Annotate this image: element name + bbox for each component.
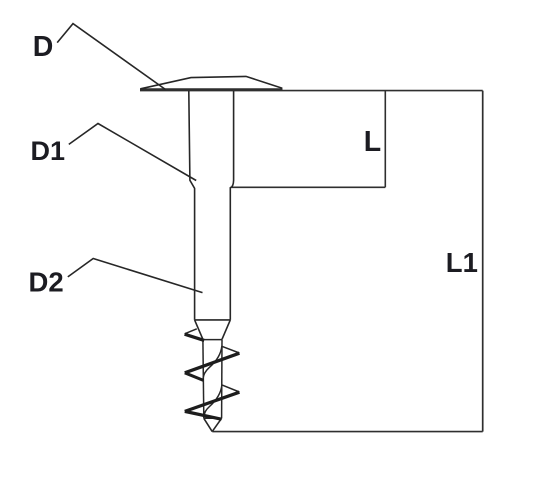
shaft left edge with shoulder jog [189, 91, 195, 320]
svg-text:D2: D2 [29, 267, 64, 298]
thread crest 1 left upper flank [185, 329, 197, 334]
svg-text:L1: L1 [446, 247, 478, 278]
tip top horizontal line [204, 417, 222, 419]
thread crest 1 right upper flank [222, 346, 239, 353]
thread thick long line 1 [185, 353, 240, 373]
leader line for D2 [68, 259, 203, 293]
dimension line L1 vertical [482, 91, 484, 432]
screw head base thick line [140, 88, 283, 91]
thread root helix S-curve 2 [204, 385, 222, 417]
cone top horizontal line [195, 319, 231, 321]
cone bottom horizontal line [203, 339, 222, 341]
svg-text:D: D [33, 31, 54, 63]
cone left edge [195, 320, 203, 339]
thread thick stub 3 [185, 411, 222, 419]
thread thick long line 2 [185, 392, 240, 411]
dimension line bottom horizontal [212, 431, 482, 433]
leader line for D1 [69, 124, 196, 181]
core right edge [221, 340, 223, 419]
thread thick stub 1 [185, 334, 205, 340]
thread crest 2 right upper flank [222, 385, 240, 392]
dimension line top horizontal [283, 90, 483, 92]
core left edge [202, 340, 205, 419]
shaft right edge with shoulder jog [230, 91, 233, 320]
svg-text:L: L [364, 126, 381, 158]
cone right edge [222, 320, 230, 339]
dimension line L vertical [384, 91, 386, 188]
thread thick stub 2 [185, 373, 204, 381]
dimension line L horizontal [230, 186, 385, 188]
thread root helix S-curve 1 [203, 346, 222, 381]
tip cone right [212, 418, 221, 431]
leader line for D [57, 24, 165, 90]
tip cone left [204, 418, 212, 431]
svg-text:D1: D1 [31, 136, 66, 166]
screw head dome outline [141, 76, 283, 88]
